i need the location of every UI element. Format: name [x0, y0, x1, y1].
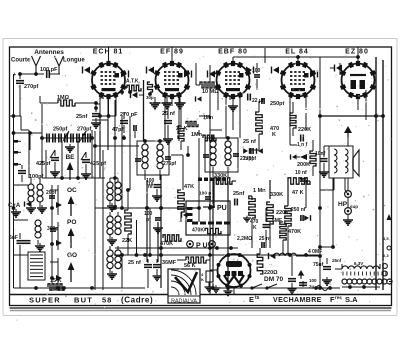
svg-text:BUT: BUT [74, 296, 93, 305]
svg-text:56 K: 56 K [184, 263, 196, 269]
svg-text:425pf: 425pf [36, 161, 51, 167]
svg-text:36MF: 36MF [162, 260, 177, 266]
svg-text:25nf: 25nf [233, 191, 244, 197]
svg-text:250pf: 250pf [270, 101, 285, 107]
svg-text:HP: HP [338, 201, 348, 208]
svg-text:Antennes: Antennes [34, 49, 64, 56]
svg-text:250 nf: 250 nf [291, 207, 306, 213]
svg-text:PU: PU [217, 205, 227, 212]
svg-text:58: 58 [102, 296, 112, 305]
svg-text:100: 100 [252, 68, 261, 74]
svg-text:OC: OC [67, 187, 77, 194]
svg-text:25nf: 25nf [76, 114, 87, 120]
svg-text:47pf: 47pf [112, 127, 123, 133]
svg-text:25 nf: 25 nf [243, 139, 256, 145]
svg-text:25 nf: 25 nf [259, 236, 271, 242]
svg-text:K: K [272, 132, 276, 138]
svg-text:75nf: 75nf [313, 262, 324, 268]
svg-text:2,2MΩ: 2,2MΩ [237, 236, 252, 242]
svg-text:E: E [249, 295, 254, 304]
svg-text:22K: 22K [122, 238, 132, 244]
svg-text:6,3V: 6,3V [354, 261, 363, 266]
svg-text:K: K [253, 225, 257, 231]
svg-text:DM 70: DM 70 [264, 276, 284, 283]
svg-text:275pf: 275pf [163, 161, 176, 167]
svg-text:250pf: 250pf [53, 127, 68, 133]
svg-text:VECHAMBRE: VECHAMBRE [273, 297, 322, 304]
svg-text:Courte: Courte [11, 58, 31, 64]
svg-text:EL 84: EL 84 [285, 49, 309, 56]
svg-text:200K: 200K [297, 162, 310, 168]
svg-text:470K: 470K [288, 229, 301, 235]
svg-text:270 pF: 270 pF [120, 112, 138, 118]
svg-text:1Mn: 1Mn [191, 132, 203, 138]
svg-text:5MF: 5MF [272, 218, 282, 224]
svg-text:K: K [201, 277, 204, 282]
svg-text:100 p: 100 p [199, 191, 211, 197]
svg-text:270pf: 270pf [24, 84, 39, 90]
svg-text:4,5: 4,5 [383, 236, 389, 241]
svg-text:470K: 470K [160, 241, 173, 247]
svg-text:S.A: S.A [345, 295, 358, 304]
svg-text:10 MΩ: 10 MΩ [202, 89, 219, 95]
svg-text:sup: sup [350, 204, 358, 209]
svg-text:PO: PO [67, 219, 76, 226]
svg-text:25 nf: 25 nf [162, 111, 175, 117]
svg-text:1 Mn: 1 Mn [253, 188, 266, 194]
svg-text:EZ 80: EZ 80 [345, 49, 369, 56]
svg-text:Longue: Longue [63, 58, 85, 64]
svg-text:220K: 220K [298, 127, 311, 133]
svg-text:10 nf: 10 nf [295, 170, 307, 176]
svg-text:GO: GO [67, 252, 77, 259]
svg-text:100: 100 [309, 278, 317, 283]
svg-text:470K: 470K [192, 228, 204, 234]
svg-text:nf: nf [148, 184, 153, 190]
svg-text:(Cadre): (Cadre) [121, 296, 153, 305]
svg-text:BE: BE [65, 154, 75, 161]
svg-text:ts: ts [255, 295, 260, 301]
svg-text:EBF 80: EBF 80 [218, 49, 248, 56]
svg-text:30µ: 30µ [146, 95, 154, 100]
svg-text:RADIALVA: RADIALVA [171, 299, 197, 305]
svg-text:330K: 330K [270, 192, 283, 198]
svg-text:2µ: 2µ [309, 284, 315, 289]
svg-text:275pf: 275pf [243, 156, 256, 162]
svg-text:47 K: 47 K [292, 190, 304, 196]
svg-text:47K: 47K [184, 184, 194, 190]
svg-text:25 nf: 25 nf [128, 260, 141, 266]
svg-text:270pf: 270pf [77, 127, 92, 133]
svg-text:0,3: 0,3 [383, 253, 389, 258]
svg-text:C+A: C+A [8, 203, 21, 209]
svg-text:P U: P U [196, 243, 208, 250]
